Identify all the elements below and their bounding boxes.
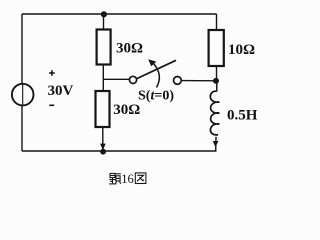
resistor R3 10Ω right: [209, 30, 224, 66]
label + polarity plus: [49, 70, 55, 76]
svg-text:16: 16: [121, 172, 134, 186]
svg-text:S(t=0): S(t=0): [138, 88, 174, 103]
wire middle branch upper: [103, 14, 105, 30]
voltage source U 30V: [12, 84, 34, 106]
wire middle branch lower with current arrow: [100, 127, 106, 151]
wire switch right lead: [181, 80, 216, 82]
wire middle branch between resistors: [102, 65, 104, 92]
switch S(t=0): [129, 59, 181, 87]
char 题: [109, 173, 121, 184]
svg-text:10Ω: 10Ω: [228, 42, 255, 58]
resistor R1 30Ω top middle: [97, 30, 111, 65]
svg-text:0.5H: 0.5H: [227, 107, 258, 123]
resistor R2 30Ω bottom middle: [96, 91, 110, 127]
wire top horizontal: [22, 13, 217, 15]
svg-text:30V: 30V: [48, 83, 74, 99]
wire right vertical top: [216, 14, 218, 30]
svg-text:30Ω: 30Ω: [113, 102, 140, 118]
caption 题 16 图: [109, 172, 146, 186]
node top junction dot: [101, 11, 107, 17]
wire right vertical below R3: [216, 66, 218, 81]
svg-text:30Ω: 30Ω: [116, 41, 143, 57]
inductor L 0.5H: [210, 81, 219, 151]
node bottom junction dot: [100, 149, 106, 155]
node right junction dot: [213, 78, 219, 84]
wire bottom horizontal: [22, 150, 217, 152]
label - polarity minus: [49, 104, 54, 106]
char 图: [135, 173, 146, 184]
wire left vertical: [21, 14, 23, 151]
wire switch left lead: [103, 78, 129, 80]
